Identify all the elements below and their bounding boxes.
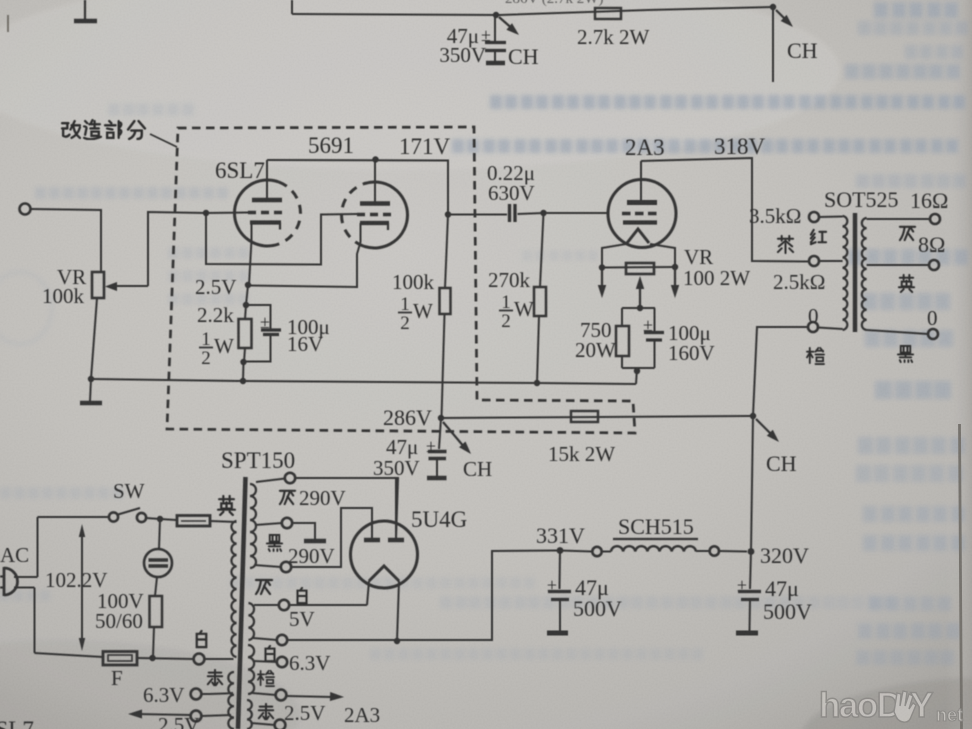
wiper arrow of hum pot (639, 282, 641, 308)
primary terminal 2.5k (809, 256, 819, 266)
5V bottom terminal (277, 635, 287, 645)
2A3 plate (627, 200, 657, 205)
2.5V winding terminal (orange) + arrow (276, 690, 287, 701)
SPT150 lower-left winding (228, 672, 234, 729)
ground (top filter cap) (486, 61, 505, 66)
primary terminal 3.5k (809, 212, 819, 222)
wire anodes to plate load (267, 160, 448, 215)
SPT150 6.3V winding (248, 645, 254, 694)
2A3 filament (627, 229, 649, 243)
V1b plate (360, 201, 390, 206)
HV bottom terminal (gray) (281, 562, 291, 572)
bus junction (240, 378, 246, 384)
hanzi hong (red) (811, 230, 826, 244)
wire HV top to 5U4G right plate (295, 478, 398, 539)
arrow CH top-right (776, 10, 789, 23)
hanzi chi (red) right (259, 704, 273, 719)
ground top-left (84, 0, 86, 19)
2.5V terminal left + arrow (191, 711, 202, 722)
fuse (top) (177, 516, 210, 527)
wire pot bottom to ground bus (91, 298, 97, 379)
wire cathode tie V1b to 2.5V node (249, 223, 361, 287)
junction (2.2k / 100u) (243, 302, 249, 308)
wire cathode chain (246, 285, 248, 305)
320V/286V junction node (750, 413, 756, 419)
wire plate to 318V / OPT (641, 158, 808, 262)
320V node (748, 548, 755, 555)
wire grid V1a (206, 212, 248, 215)
bleed-through text from reverse of page (874, 2, 958, 18)
wire down from top-right node (772, 7, 774, 82)
V1b grid (dashed) (357, 213, 393, 216)
SPT150 2.5V winding (247, 700, 252, 729)
node junction top (to CH + filter cap) (493, 12, 499, 18)
primary bottom terminal (194, 654, 205, 665)
wire top B+ bus (291, 0, 293, 14)
triode V1a (6SL7 half) envelope (234, 180, 278, 246)
hanzi hei (black) tap (267, 535, 282, 551)
wire left page-edge stub (7, 15, 9, 32)
resistor (100V 50/60 dropper) (155, 577, 157, 596)
SPT150 core (238, 477, 246, 729)
page edge right (960, 424, 962, 729)
HV top terminal (gray 290V) (285, 473, 295, 483)
5U4G filament (369, 566, 399, 581)
plate junction node (372, 156, 378, 162)
hanzi chi (red) 6.3V left (208, 670, 222, 685)
plate node junction (171V) (445, 211, 451, 217)
secondary terminal 8ohm (929, 260, 939, 270)
286V node (438, 415, 444, 421)
filament left leg to 5V (367, 581, 369, 605)
wire wiper to grid (148, 212, 206, 286)
V1a cathode (250, 220, 281, 224)
wire HV bottom to 5U4G left plate (291, 508, 372, 567)
hanzi hei (black) OPT (898, 346, 913, 362)
potentiometer VR 100k (92, 272, 104, 298)
ground bus junction (pot) (88, 376, 94, 382)
V1b cathode (360, 221, 389, 225)
input terminal (20, 204, 31, 215)
secondary terminal 16ohm (930, 214, 940, 224)
junction (filter tap) (157, 516, 163, 522)
wire input to pot (31, 209, 101, 272)
hum pot VR 100 2W (602, 266, 675, 269)
OPT primary winding (843, 216, 848, 330)
watermark haoDIY.net (819, 686, 963, 725)
wire cap to 2A3 grid (518, 213, 544, 214)
capacitor 100u 16V cathode bypass (246, 305, 271, 329)
V1a plate (252, 198, 282, 203)
fuse F (bottom) (103, 652, 137, 666)
arrow CH (to other channel) (499, 17, 515, 31)
resistor 100k 1/2W plate load (445, 215, 448, 289)
OPT core (853, 213, 857, 332)
hanzi bai (white) 6.3V (266, 646, 275, 661)
resistor 750 20W bias (621, 308, 623, 326)
wire B+ takeoff (287, 551, 557, 641)
5V top terminal (white) (279, 600, 289, 610)
wire fuse to winding (210, 521, 237, 522)
SPT150 5V winding (249, 603, 255, 640)
arrow CH right (756, 419, 774, 437)
2A3 envelope (608, 180, 676, 248)
bias network top wire (622, 307, 655, 309)
capacitor 47u 350V (top filter) (494, 15, 496, 41)
5U4G plates (364, 538, 380, 543)
capacitor 100u 160V bias bypass (654, 308, 656, 331)
AC rail left (37, 517, 39, 577)
2A3 filament bar (623, 220, 657, 224)
hanzi cheng (orange) (258, 671, 274, 686)
hanzi cha (brown) (778, 236, 793, 253)
capacitor 47u 500V (331V) (559, 551, 562, 590)
grid node junction (540, 210, 546, 216)
filament right leg (cathode out) (397, 581, 399, 641)
ground (331V cap) (547, 631, 568, 636)
resistor 2.2k 1/2W cathode (245, 305, 246, 319)
secondary terminal 0 (928, 329, 938, 339)
resistor 270k 1/2W grid leak (540, 213, 544, 287)
wire AC rail top (38, 516, 110, 518)
filament leads (602, 244, 626, 268)
2A3 grid (dashed) (622, 212, 659, 215)
hanzi bai (white) 5V (298, 588, 307, 603)
label gai-zao-bu-fen (modified part) (62, 121, 80, 138)
bus junction (270k) (534, 380, 540, 386)
ground (320V cap) (736, 631, 758, 636)
hanzi hui (gray) OPT (900, 227, 915, 240)
wire 2.2k bottom to bus (242, 362, 245, 381)
V1a grid (dashed) (248, 211, 286, 214)
capacitor 0.22u 630V coupling (508, 204, 511, 222)
line filter capacitor (circle) (159, 519, 160, 549)
hanzi bai (white) primary (197, 631, 207, 647)
ground (centre tap) (304, 539, 326, 544)
grid junction node (203, 210, 209, 216)
hanzi huang (yellow) primary (218, 496, 235, 515)
2.5V bottom terminal (275, 720, 286, 729)
dashed box "modified part" (167, 127, 635, 433)
SPT150 primary winding (231, 521, 236, 657)
capacitor 47u 350V (286V filter) (439, 418, 441, 449)
arrow CH (286V to other channel) (443, 422, 465, 448)
ground bus wire (91, 379, 636, 384)
node junction top-right (770, 4, 776, 10)
hanzi huang (yellow) OPT (899, 275, 914, 292)
bias network bottom wire (622, 367, 655, 369)
primary terminal 0 (808, 322, 818, 332)
wire 286V feed (through 15k) (441, 416, 753, 418)
arrows to 2.5V winding (601, 270, 603, 290)
102.2V span arrow (81, 533, 83, 642)
resistor 2.7k 2W (595, 8, 621, 19)
6.3V terminal right (277, 657, 287, 667)
wire OPT 0-tap down to B+ (751, 327, 808, 552)
hanzi cheng (orange) (807, 348, 824, 364)
hanzi hui (gray) bottom (256, 580, 272, 594)
triode V1b (5691 half) envelope (363, 182, 407, 248)
wire grid tie V1a-V1b (206, 213, 357, 265)
SPT150 HV secondary winding (250, 484, 256, 568)
OPT secondary winding (862, 218, 867, 330)
capacitor 47u 500V (320V) (750, 552, 751, 590)
junction (2.2k bottom) (240, 359, 246, 365)
wire plate node to coupling cap (448, 214, 507, 216)
resistor 15k 2W dropper (571, 411, 598, 422)
junction on bottom rail (149, 655, 155, 661)
AC rail bottom (35, 653, 104, 657)
wiper arrow of VR (117, 285, 148, 287)
ground symbol (90, 379, 91, 401)
ground (286V filter cap) (427, 476, 447, 481)
HV centre tap (black) (282, 518, 292, 528)
hanzi hui (gray) top (280, 491, 295, 504)
2.5V cathode node (245, 282, 251, 288)
